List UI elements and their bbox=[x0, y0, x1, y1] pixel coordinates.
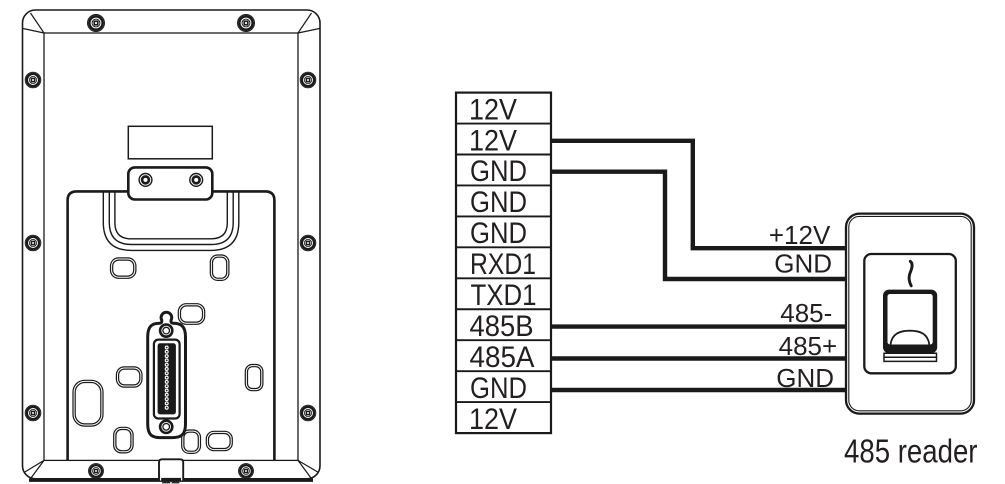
screw right-middle bbox=[300, 235, 316, 251]
bottom foot teeth bbox=[162, 481, 170, 483]
screw bottom-left bbox=[89, 464, 104, 479]
bracket screw left bbox=[139, 174, 152, 187]
svg-text:485 reader: 485 reader bbox=[844, 432, 978, 469]
svg-text:GND: GND bbox=[470, 217, 527, 250]
oval B below arch right bbox=[210, 255, 229, 280]
bottom foot dark bar bbox=[161, 478, 181, 481]
screw top-left bbox=[88, 15, 105, 32]
corner mitre lines bottom-left bbox=[24, 460, 44, 478]
svg-text:12V: 12V bbox=[469, 124, 517, 157]
handle arch inner bbox=[115, 191, 227, 238]
window tray bbox=[884, 353, 937, 361]
svg-text:485B: 485B bbox=[470, 310, 534, 343]
wire GND to reader GND bbox=[551, 172, 847, 279]
svg-text:485+: 485+ bbox=[779, 331, 838, 361]
wire 485B to reader 485- bbox=[551, 324, 848, 328]
device bottom thick edge bbox=[29, 479, 313, 482]
svg-text:GND: GND bbox=[470, 155, 527, 188]
handle arch middle bbox=[109, 191, 233, 244]
fingerprint dome bbox=[891, 331, 930, 345]
corner mitre lines top-right bbox=[298, 13, 320, 33]
screw left-middle bbox=[25, 235, 41, 251]
svg-text:485A: 485A bbox=[470, 341, 535, 374]
svg-text:GND: GND bbox=[774, 248, 832, 278]
connector pin zipper texture bbox=[165, 346, 169, 410]
svg-text:RXD1: RXD1 bbox=[470, 248, 536, 281]
screw left-top bbox=[25, 72, 41, 88]
svg-text:GND: GND bbox=[776, 363, 834, 393]
mounting plate bbox=[68, 191, 275, 461]
corner mitre lines top-left bbox=[23, 13, 44, 33]
connector pin block bbox=[158, 343, 176, 414]
svg-text:12V: 12V bbox=[469, 93, 517, 126]
oval I middle-right bbox=[245, 365, 263, 391]
bracket screw right bbox=[190, 174, 203, 187]
connector body with keyhole bump bbox=[148, 312, 186, 437]
screw right-bottom bbox=[300, 405, 316, 421]
fingerprint window dark frame bbox=[883, 290, 937, 354]
bottom tab bbox=[159, 459, 183, 480]
oval A below arch left bbox=[111, 258, 136, 278]
oval F lower-left bbox=[114, 427, 133, 453]
corner mitre lines bottom-right bbox=[298, 460, 319, 478]
connector screw top bbox=[160, 325, 172, 337]
wire 485A to reader 485+ bbox=[551, 356, 848, 360]
plate oval cutouts (double outline) bbox=[73, 255, 263, 453]
screw bottom-right bbox=[239, 464, 254, 479]
label rectangle top center bbox=[128, 126, 212, 159]
cable squiggle bbox=[909, 261, 912, 286]
oval E large bottom-left bbox=[73, 380, 103, 426]
screw right-top bbox=[300, 72, 316, 88]
handle arch outer bbox=[103, 191, 239, 250]
svg-text:GND: GND bbox=[470, 186, 527, 219]
wire GND to reader GND lower bbox=[551, 388, 848, 392]
fingerprint module bbox=[864, 254, 956, 373]
svg-text:+12V: +12V bbox=[769, 220, 831, 250]
wire 12V to reader +12V bbox=[551, 141, 847, 248]
screw top-right bbox=[238, 15, 255, 32]
oval C above connector right bbox=[178, 304, 204, 325]
device outer frame bbox=[23, 10, 321, 479]
svg-text:485-: 485- bbox=[780, 298, 832, 328]
reader outer body bbox=[846, 214, 974, 414]
connector pin collar bbox=[154, 340, 180, 419]
connector screw bottom bbox=[160, 421, 172, 433]
svg-text:GND: GND bbox=[470, 372, 527, 405]
terminal block outline bbox=[456, 93, 551, 434]
oval D middle-left bbox=[116, 367, 142, 387]
terminal block row lines bbox=[456, 124, 551, 403]
reader inner border bbox=[849, 216, 971, 410]
screw left-bottom bbox=[25, 405, 41, 421]
svg-text:12V: 12V bbox=[469, 403, 517, 436]
oval G bottom right of connector bbox=[182, 430, 201, 453]
top bracket bbox=[128, 167, 212, 199]
svg-text:TXD1: TXD1 bbox=[471, 279, 537, 312]
oval H bottom horizontal bbox=[206, 431, 232, 450]
bezel inner rect bbox=[44, 33, 298, 460]
